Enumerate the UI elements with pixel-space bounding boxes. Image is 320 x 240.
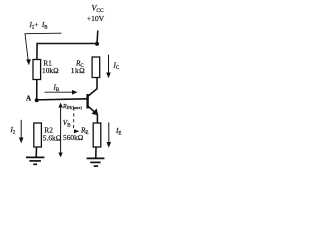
resistor RC xyxy=(92,57,100,78)
svg-text:RIN(base): RIN(base) xyxy=(62,104,83,110)
ground (right) xyxy=(87,158,105,166)
wire: R1 bottom to node A xyxy=(36,80,38,101)
wire: rail corner down to R1 xyxy=(36,43,38,60)
transistor Q1 base bar xyxy=(86,94,88,109)
svg-text:10kΩ: 10kΩ xyxy=(42,66,59,75)
wire: top rail xyxy=(37,43,98,45)
wire: Vcc lead down to rail xyxy=(96,31,99,44)
pointer arrowhead toward RE label xyxy=(74,129,79,133)
node A junction dot xyxy=(35,98,39,102)
svg-text:+10V: +10V xyxy=(87,14,105,23)
wire: R2 bottom to ground xyxy=(35,147,37,157)
svg-text:1kΩ: 1kΩ xyxy=(71,66,85,75)
current arrow IE (down beside RE) xyxy=(107,123,112,148)
junction dot at Vcc node xyxy=(95,42,99,46)
current arrow IC (down beside RC) xyxy=(106,55,111,79)
dashed pointer from R_IN(base) to RE xyxy=(73,108,75,129)
current arrow I2+IB (bent, down along R1) xyxy=(25,33,62,65)
current arrow IB (right along base wire) xyxy=(45,90,78,95)
svg-text:A: A xyxy=(26,95,31,103)
resistor R1 xyxy=(33,60,41,80)
wire: base wire from node A to transistor xyxy=(37,99,87,100)
wire: RE bottom to ground xyxy=(95,147,97,158)
label VCC supply xyxy=(87,4,105,24)
current arrow I2 (down beside R2) xyxy=(19,120,24,143)
transistor Q1 emitter lead with arrow xyxy=(88,106,97,123)
ground (left) xyxy=(26,157,44,164)
svg-text:5.6kΩ: 5.6kΩ xyxy=(43,134,62,143)
svg-text:560kΩ: 560kΩ xyxy=(63,133,84,142)
resistor R2 xyxy=(34,123,42,147)
arrow R_IN(base) (up toward base) + V_B double arrow shaft xyxy=(58,103,62,158)
transistor Q1 collector lead xyxy=(88,78,97,97)
resistor RE xyxy=(93,123,101,147)
